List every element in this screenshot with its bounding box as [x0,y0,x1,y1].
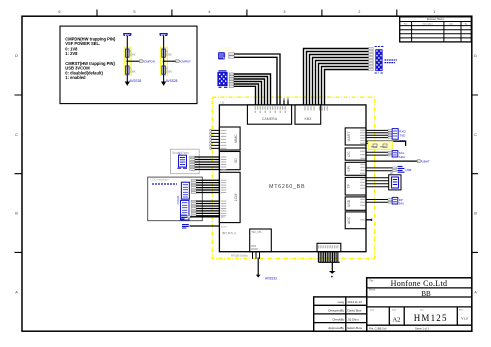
svg-text:MT6260.SchDoc: MT6260.SchDoc [231,256,249,258]
svg-text:TXD: TXD [399,134,406,138]
svg-text:Title:: Title: [369,279,374,282]
svg-text:CMPDN: CMPDN [144,60,155,64]
svg-text:CON24: CON24 [176,195,180,204]
svg-text:V1.0: V1.0 [461,317,468,321]
svg-text:USB: USB [405,168,411,172]
svg-text:Size:: Size: [370,310,375,312]
svg-text:David Bow: David Bow [348,309,363,313]
svg-text:Rev:: Rev: [459,310,464,312]
svg-text:TP: TP [347,183,351,188]
svg-text:Description: Description [422,23,433,26]
svg-text:A2: A2 [393,317,401,324]
svg-text:SDA: SDA [399,155,405,159]
svg-text:100K: 100K [130,52,136,56]
svg-text:MMC: MMC [234,134,238,143]
svg-text:Edwin Bow: Edwin Bow [348,326,363,330]
svg-text:3: 3 [283,10,285,14]
svg-text:I2C: I2C [347,151,351,157]
svg-text:DesignedBy: DesignedBy [328,309,344,313]
svg-text:JQ Zhou: JQ Zhou [348,317,359,321]
svg-text:1: 1 [433,10,435,14]
svg-text:ApprovedBy: ApprovedBy [328,326,344,330]
svg-text:UBAT: UBAT [422,160,430,164]
svg-text:Sheet 1 of 1: Sheet 1 of 1 [415,326,430,330]
svg-text:1: 2V8: 1: 2V8 [65,51,78,56]
svg-text:BPI: BPI [221,217,225,219]
svg-text:4: 4 [208,10,210,14]
svg-text:DM: DM [399,202,404,206]
svg-text:KB3: KB3 [304,117,311,121]
svg-text:Revision History: Revision History [427,18,445,21]
svg-text:C: C [15,133,18,137]
svg-text:A: A [15,290,18,294]
svg-text:A: A [474,290,477,294]
svg-text:100K: 100K [166,69,172,73]
svg-text:B: B [474,212,477,216]
svg-text:Lang: Lang [338,300,345,304]
svg-text:2013.11.13: 2013.11.13 [348,300,363,304]
svg-text:100K: 100K [130,69,136,73]
svg-text:C: C [474,133,477,137]
svg-text:ADC: ADC [347,216,351,224]
svg-text:D: D [474,54,477,58]
svg-text:Doc:: Doc: [420,310,425,312]
svg-text:File: C:\BB.Sch: File: C:\BB.Sch [369,326,387,330]
svg-text:100K: 100K [166,52,172,56]
svg-text:B: B [15,212,18,216]
svg-text:SPI: SPI [347,166,351,172]
svg-text:CMRST: CMRST [180,60,191,64]
svg-text:Sheet:: Sheet: [369,288,376,291]
svg-text:D: D [15,54,18,58]
svg-text:6: 6 [58,10,60,14]
svg-text:U1: U1 [221,100,225,104]
svg-text:CAMERA: CAMERA [262,117,278,121]
svg-text:USB: USB [347,199,351,207]
svg-text:(BPI_BUS_1): (BPI_BUS_1) [222,232,237,235]
svg-text:AVSS28: AVSS28 [166,79,178,83]
svg-text:LCM: LCM [234,194,238,202]
svg-text:SD: SD [234,158,238,163]
svg-text:1: enabled: 1: enabled [65,75,86,80]
svg-text:T32_CTL: T32_CTL [251,230,262,234]
svg-text:MT6260_BB: MT6260_BB [269,184,305,190]
svg-text:AVSS28: AVSS28 [129,79,141,83]
svg-text:BB: BB [421,290,431,298]
svg-text:UART: UART [347,131,351,142]
svg-text:2: 2 [358,10,360,14]
svg-text:VSF POWER SEL.: VSF POWER SEL. [65,41,100,46]
svg-text:AVSS33: AVSS33 [265,277,277,281]
svg-text:KCOL: KCOL [221,226,228,228]
svg-text:Honfone Co.Ltd: Honfone Co.Ltd [391,279,448,288]
svg-text:CTS: CTS [399,139,405,143]
svg-text:CheckBy: CheckBy [332,317,344,321]
svg-text:5: 5 [133,10,135,14]
svg-text:LCD interface: LCD interface [151,178,170,182]
svg-text:HM125: HM125 [414,313,448,323]
